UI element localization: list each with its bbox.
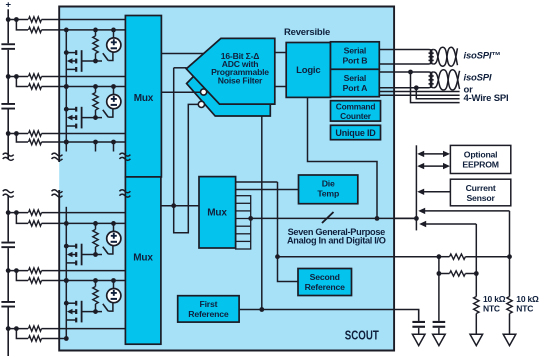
junction dot row3b stub b	[93, 140, 98, 145]
junction dot balancer 5 drain branch on S-wire	[64, 278, 69, 283]
wire NTC1 top lead	[475, 274, 477, 297]
wire tap 6 S-line	[42, 338, 67, 340]
wire balancer 5 node to switch	[96, 311, 103, 313]
wire NTC2 to ground	[509, 314, 511, 335]
resistor balancer 5 gate pull-up	[93, 287, 98, 305]
resistor tap 3 S filter	[29, 139, 42, 144]
serial port B block	[331, 42, 380, 70]
wire tap 3 S-line	[42, 141, 126, 143]
wire balancer 1 resistor leads	[95, 30, 97, 36]
resistor tap 6 C filter	[29, 326, 42, 331]
wire balancer 5 current-source top lead	[113, 281, 115, 289]
resistor balancer 1 gate pull-up	[93, 36, 98, 54]
junction dot NTC row2 left	[437, 271, 442, 276]
junction dot balancer 5 current-source top	[111, 278, 116, 283]
wire SPI tap1 drop	[411, 72, 460, 103]
junction dot SPI tap 1	[408, 70, 413, 75]
wire tap 3 C-line to Mux	[42, 133, 126, 135]
node balancer 4 gate node	[93, 252, 98, 257]
wire balancer 5 resistor bottom lead	[95, 304, 97, 312]
svg-text:Mux: Mux	[133, 253, 153, 264]
wire balancer 4 drain/source vertical	[65, 223, 67, 280]
junction dot SPI tap 2	[414, 85, 419, 90]
wire balancer 4 switch to current source	[108, 245, 113, 254]
wire port A to transformer T2 a	[379, 71, 428, 73]
switch balancer 4 lever	[103, 247, 108, 254]
junction dot tap 1 branch	[14, 17, 19, 22]
wire GPIO stub to bus	[394, 217, 416, 219]
thermistor NTC2	[507, 297, 512, 314]
command counter block	[331, 101, 381, 121]
junction dot second-ref node	[275, 254, 280, 259]
junction dot balancer 1 current-source top	[111, 28, 116, 33]
GPIO expansion bus vertical	[415, 145, 417, 230]
wire NTC row2 segment	[439, 273, 450, 275]
junction dot balancer 4 resistor top	[93, 221, 98, 226]
resistor tap 5 C filter	[29, 268, 42, 273]
svg-text:Reversible: Reversible	[284, 27, 330, 38]
wire balancer 2 drain/source vertical	[65, 87, 67, 143]
junction dot tap 5 branch	[14, 268, 19, 273]
junction dot ADC feed on lower-mux wire	[171, 203, 176, 208]
transistor Q5 (N-MOSFET discharge switch)	[66, 301, 95, 323]
wire stack break to cell3	[7, 195, 9, 241]
wire SPI line 4	[379, 94, 459, 96]
node cell tap 4 on stack wire	[6, 210, 11, 215]
resistor balancer 2 gate pull-up	[93, 93, 98, 111]
current source I1 (balancer 1)	[107, 38, 121, 52]
second reference block	[298, 269, 352, 296]
battery cell 3	[1, 242, 15, 248]
wire stack cell3 to cell4	[7, 248, 9, 301]
break mark on IC left border (upper)	[52, 153, 63, 160]
wire port A to transformer T2 b	[379, 87, 428, 89]
junction dot balancer 5 drain stub	[64, 301, 69, 306]
wire tap 5 S-branch jog	[16, 271, 28, 281]
wire tap 5 C-line to Mux	[42, 270, 126, 272]
wire GPIO mux to die-temp node	[236, 181, 278, 183]
wire ADC U1 left vertex feed	[174, 67, 187, 69]
junction dot tap 4 branch	[14, 210, 19, 215]
wire tap 2 S-line	[42, 86, 126, 88]
svg-text:SCOUT: SCOUT	[345, 327, 379, 342]
junction dot row3b stub c	[111, 140, 116, 145]
wire balancer 2 resistor leads	[95, 87, 97, 93]
resistor NTC row1	[450, 254, 466, 259]
ADC U2 (rear sigma-delta ADC)	[187, 53, 271, 116]
svg-text:OptionalEEPROM: OptionalEEPROM	[462, 150, 498, 170]
ground under C2	[433, 334, 446, 345]
wire balancer 5 drain/source vertical	[65, 281, 67, 339]
junction dot balancer 2 source at next tap	[64, 140, 69, 145]
node cell tap 1 on stack wire	[6, 17, 11, 22]
junction dot balancer 4 drain branch on S-wire	[64, 221, 69, 226]
wire balancer 2 node to switch	[96, 117, 103, 119]
transistor Q2 (N-MOSFET discharge switch)	[66, 107, 95, 129]
wire balancer 2 current-source top lead	[113, 87, 115, 95]
wire port B to transformer T1 b	[379, 63, 428, 65]
wire tap 2 C-line to Mux	[42, 76, 126, 78]
wire second reference node path	[278, 182, 299, 282]
junction dot balancer 2 resistor top	[93, 84, 98, 89]
svg-text:Logic: Logic	[296, 65, 320, 76]
mux block upper (cell mux)	[125, 16, 161, 177]
die temp block	[299, 175, 358, 204]
transformer T2 twisted pair	[434, 70, 460, 90]
wire cap2 lead	[438, 274, 440, 321]
current source I5 (balancer 5)	[107, 289, 121, 303]
arrow current sensor	[417, 189, 450, 195]
junction dot GPIO at ladder	[248, 216, 253, 221]
thermistor NTC1	[474, 297, 479, 314]
mux block lower (cell mux)	[125, 177, 160, 344]
wire tap 4 S-branch jog	[16, 213, 28, 224]
resistor tap 6 S filter	[29, 336, 42, 341]
wire NTC right drop	[509, 211, 511, 257]
current source I4 (balancer 4)	[107, 231, 121, 245]
wire cap1 to ground	[418, 328, 420, 335]
wire balancer 1 node to switch	[96, 60, 103, 62]
svg-text:Mux: Mux	[134, 93, 154, 104]
break mark on stack wire (upper)	[3, 153, 14, 160]
wire tap 5 C-line (row a)	[8, 270, 28, 272]
wire tap 2 C-line (row a)	[8, 76, 28, 78]
wire lower mux to GPIO mux	[161, 205, 199, 207]
node cell tap 3 on stack wire	[6, 131, 11, 136]
svg-text:CommandCounter: CommandCounter	[336, 102, 376, 122]
junction dot balancer 4 current-source top	[111, 221, 116, 226]
svg-text:Mux: Mux	[207, 208, 227, 219]
wire GPIO analog line	[251, 217, 417, 219]
transformer T1 primary coil	[429, 50, 432, 64]
serial port A block	[331, 69, 380, 96]
node cell tap 2 on stack wire	[6, 74, 11, 79]
wire balancer 1 drain/source vertical	[65, 30, 67, 87]
switch balancer 2 lever	[103, 110, 108, 117]
svg-text:CurrentSensor: CurrentSensor	[466, 183, 496, 203]
svg-text:SerialPort B: SerialPort B	[342, 46, 367, 66]
svg-text:+: +	[6, 0, 12, 11]
junction dot tap 3 branch	[14, 131, 19, 136]
transformer T1 secondary coil	[430, 50, 433, 64]
junction dot balancer 4 source at next tap	[64, 278, 69, 283]
wire battery stack top segment	[7, 9, 9, 43]
junction dot balancer 2 current-source top	[111, 84, 116, 89]
junction dot NTC row1 right	[507, 254, 512, 259]
junction dot row3b stub a	[64, 140, 69, 145]
wire NTC row1 segment	[439, 256, 450, 258]
junction dot balancer 1 resistor top	[93, 28, 98, 33]
junction dot reference line	[259, 307, 264, 312]
svg-text:SerialPort A: SerialPort A	[343, 73, 368, 93]
wire upper mux to ADC circle 1	[161, 91, 200, 93]
resistor tap 1 S filter	[29, 27, 42, 32]
wire balancer 4 resistor leads	[95, 223, 97, 229]
break mark on stack wire (lower)	[3, 190, 14, 197]
resistor tap 1 C filter	[29, 17, 42, 22]
wire tap 6 C-line to Mux	[42, 328, 126, 330]
svg-text:Seven General-PurposeAnalog In: Seven General-PurposeAnalog In and Digit…	[287, 227, 386, 246]
svg-text:Unique ID: Unique ID	[335, 128, 376, 138]
wire tap 4 S-line	[42, 222, 126, 224]
wire balancer 2 switch to current source	[108, 109, 113, 118]
wire balancer 1 switch to current source	[108, 52, 113, 61]
junction dot balancer 1 source at next tap	[64, 84, 69, 89]
wire SPI tap2 drop	[416, 88, 459, 99]
capacitor C2	[433, 321, 446, 328]
wire tap 6 S-branch jog	[16, 329, 28, 339]
wire NTC row1 to right	[465, 256, 509, 258]
wire stub below row3b c	[113, 142, 115, 152]
switch balancer 5 lever	[103, 304, 108, 311]
wire logic to GPIO bus	[308, 97, 378, 218]
junction dot balancer 4 drain stub	[64, 244, 69, 249]
wire tap 1 S-branch jog	[16, 20, 28, 30]
svg-text:isoSPI™: isoSPI™	[464, 51, 501, 62]
node cell tap 6 on stack wire	[6, 326, 11, 331]
wire cap2 to ground	[438, 328, 440, 335]
arrow GPIO to NTC right	[418, 208, 509, 214]
wire tap 1 C-line to Mux	[42, 19, 126, 21]
wire reference line	[239, 310, 419, 321]
transistor Q4 (N-MOSFET discharge switch)	[66, 244, 95, 266]
wire NTC1 to ground	[475, 314, 477, 335]
bus slash on GPIO line	[322, 212, 334, 223]
resistor tap 4 S filter	[29, 221, 42, 226]
wire row1-row2 link	[438, 257, 440, 274]
break mark on mux left edge (lower)	[119, 190, 130, 197]
transistor Q1 (N-MOSFET discharge switch)	[66, 50, 95, 72]
battery cell 1	[1, 43, 15, 50]
junction dot tap 6 branch	[14, 326, 19, 331]
wire tap 3 S-branch jog	[16, 134, 28, 143]
ground under C1	[412, 334, 425, 345]
wire NTC row2 to node	[465, 273, 476, 275]
IC border top/right/bottom	[59, 7, 394, 351]
break mark on IC left border (lower)	[52, 190, 63, 197]
resistor tap 4 C filter	[29, 210, 42, 215]
wire port B to transformer T1 a	[379, 49, 428, 51]
wire tap 6 C-line (row a)	[8, 328, 28, 330]
ADC input terminal circle 1	[201, 89, 207, 95]
ground under NTC2	[503, 334, 516, 345]
junction dot NTC row1 branch	[437, 254, 442, 259]
wire vertical lower-mux to ADC U1	[173, 68, 175, 206]
junction dot balancer 1 drain stub	[64, 50, 69, 55]
arrow GPIO to NTC left	[419, 221, 476, 227]
wire tap 3 C-line (row a)	[8, 133, 28, 135]
wire tap 1 S-line	[42, 29, 126, 31]
resistor balancer 4 gate pull-up	[93, 229, 98, 247]
wire balancer 4 resistor bottom lead	[95, 247, 97, 255]
node balancer 1 gate node	[93, 59, 98, 64]
wire cap1 lead	[418, 310, 420, 321]
junction dot GPIO at logic drop	[375, 216, 380, 221]
wire balancer 2 resistor bottom lead	[95, 110, 97, 118]
resistor tap 2 S filter	[29, 84, 42, 89]
unique id block	[331, 125, 381, 139]
wire stub below row3b a	[65, 142, 67, 152]
capacitor C1	[412, 321, 425, 328]
wire stub below row3b b	[95, 142, 97, 152]
wire tap 1 C-line (row a)	[8, 19, 28, 21]
wire stack between cell1 and tap2	[7, 50, 9, 103]
wire ADC U2 bottom to reference line	[261, 116, 263, 310]
wire balancer 4 node to switch	[96, 254, 103, 256]
wire second-ref node to NTC row	[278, 256, 439, 258]
junction dot tap 2 branch	[14, 74, 19, 79]
GPIO mux block	[199, 177, 236, 248]
wire balancer 4 current-source top lead	[113, 223, 115, 231]
wire SPI line 3	[379, 91, 459, 93]
wire ADC to logic b	[275, 86, 286, 88]
resistor tap 2 C filter	[29, 74, 42, 79]
current source I2 (balancer 2)	[107, 95, 121, 109]
wire NTC2 top lead	[509, 257, 511, 297]
transformer T2 primary coil	[429, 72, 432, 88]
battery cell 2	[1, 103, 15, 110]
junction dot NTC row2 right	[474, 271, 479, 276]
wire balancer 1 resistor bottom lead	[95, 53, 97, 61]
current sensor block	[450, 179, 510, 206]
wire stub above row4b	[65, 207, 67, 224]
wire stack bottom segment	[7, 308, 9, 356]
wire GPIO mux to die temp	[236, 189, 299, 191]
wire tap 4 C-line to Mux	[42, 212, 126, 214]
double arrow EEPROM 1	[417, 151, 450, 157]
GPIO switch ladder (seven contacts)	[236, 196, 251, 249]
wire NTC left drop	[475, 224, 477, 274]
wire ADC to logic a	[275, 52, 286, 54]
node balancer 2 gate node	[93, 115, 98, 120]
wire tap 2 S-branch jog	[16, 77, 28, 87]
junction dot balancer 1 drain branch on S-wire	[64, 28, 69, 33]
wire balancer 5 switch to current source	[108, 303, 113, 312]
logic block	[286, 43, 330, 98]
wire tap 4 C-line (row a)	[8, 212, 28, 214]
node balancer 5 gate node	[93, 309, 98, 314]
wire stack cell2 to break	[7, 110, 9, 159]
switch balancer 1 lever	[103, 53, 108, 60]
wire Z-path lower-mux to ADC circle 2	[174, 104, 199, 232]
junction dot balancer 2 drain stub	[64, 107, 69, 112]
optional EEPROM block	[450, 145, 510, 173]
resistor tap 3 C filter	[29, 131, 42, 136]
IC body (SCOUT monitor chip)	[59, 7, 394, 351]
transformer T1 twisted pair	[434, 47, 458, 66]
transformer T2 secondary coil	[430, 72, 433, 88]
junction dot balancer 5 resistor top	[93, 278, 98, 283]
wire tap 5 S-line	[42, 280, 126, 282]
wire balancer 5 resistor leads	[95, 281, 97, 287]
node cell tap 5 on stack wire	[6, 268, 11, 273]
junction dot GPIO bus	[414, 216, 419, 221]
resistor tap 5 S filter	[29, 278, 42, 283]
wire balancer 1 current-source top lead	[113, 30, 115, 38]
break mark on mux left edge (upper)	[119, 153, 130, 160]
ground under NTC1	[470, 334, 483, 345]
wire upper mux to ADC U1 input a	[161, 53, 203, 55]
resistor NTC row2	[450, 271, 466, 276]
first reference block	[178, 296, 239, 322]
svg-text:SecondReference: SecondReference	[305, 272, 346, 292]
junction dot balancer 2 drain branch on S-wire	[64, 84, 69, 89]
ADC U1 (front 16-bit sigma-delta ADC)	[186, 38, 274, 104]
junction dot balancer 5 source at next tap	[64, 336, 69, 341]
double arrow EEPROM 2	[417, 163, 450, 169]
ADC input terminal circle 2	[198, 101, 204, 107]
battery cell 4	[1, 301, 15, 308]
